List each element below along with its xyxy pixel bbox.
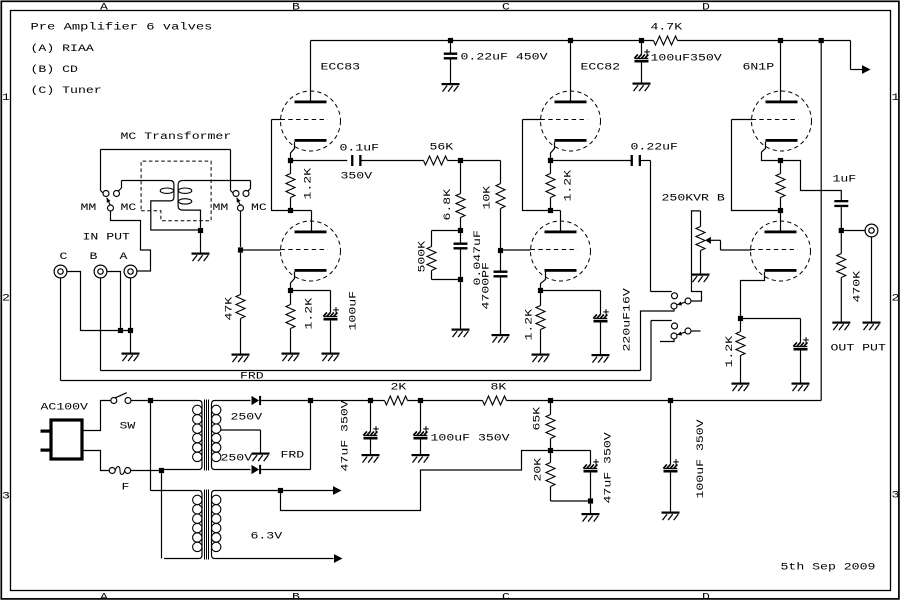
frame row label 2 right (892, 294, 900, 305)
wire B+ down feed (820, 41, 822, 401)
wire cathode to coupling cap (291, 160, 348, 162)
svg-text:D: D (702, 592, 710, 600)
label 250V upper (231, 413, 263, 424)
wire B+ rail top (311, 40, 851, 42)
junction rail 0.22uF (448, 38, 453, 43)
wire to transformer ground (200, 233, 202, 252)
ground 1.2K 6N1P (732, 383, 750, 392)
label MM left (81, 203, 97, 214)
contact selector lower common (671, 333, 677, 339)
svg-text:100uF: 100uF (349, 291, 360, 331)
label 1.2K ECC82 lower (525, 309, 536, 341)
MC transformer secondary winding (178, 181, 250, 228)
svg-text:250V: 250V (221, 454, 253, 465)
label MM right (213, 203, 229, 214)
junction 100uF right node (668, 398, 673, 403)
ground 1.2K stage1 (282, 353, 300, 362)
arrow heater lower (334, 554, 343, 563)
wire 0.22uF to selector (641, 161, 672, 292)
label 4700PF (482, 262, 493, 309)
label 1.2K stage1 lower (305, 298, 316, 330)
svg-text:56K: 56K (430, 143, 454, 154)
label 6.8K (443, 189, 454, 221)
capacitor 0.22uF 450V (444, 43, 458, 83)
capacitor 4700PF (494, 253, 508, 334)
resistor 20K (546, 453, 588, 501)
capacitor 6N1P cathode bypass (793, 337, 809, 382)
label 0.22uF (631, 143, 678, 154)
wire input B shield (107, 272, 121, 328)
frame column label C bottom (502, 592, 510, 600)
connector input B (94, 265, 107, 278)
resistor 1.2K ECC83 lower cathode (286, 293, 295, 352)
label 350V (341, 172, 373, 183)
label 10K (483, 186, 494, 210)
resistor 1.2K 6N1P upper cathode (776, 163, 785, 208)
junction shield B (118, 328, 123, 333)
svg-text:1: 1 (892, 93, 900, 104)
wire ECC83 upper grid to lower plate (272, 120, 312, 231)
svg-text:C: C (502, 592, 510, 600)
triode ECC82 lower (531, 221, 591, 281)
junction ECC82 SRPP midpoint (548, 208, 553, 213)
ground 100uF first (412, 454, 430, 463)
MC transformer primary winding (122, 181, 198, 231)
svg-text:MM: MM (213, 203, 229, 214)
svg-text:F: F (122, 483, 130, 494)
capacitor 100uF bypass (323, 307, 339, 352)
contact MC left (114, 191, 120, 197)
ground 6N1P bypass (792, 383, 810, 392)
svg-text:350V: 350V (341, 172, 373, 183)
label B input (90, 252, 98, 263)
svg-text:B: B (292, 3, 300, 14)
contact MM right (233, 191, 239, 197)
label ECC83 (321, 63, 361, 74)
wire 6N1P cathode to 1uF (783, 161, 841, 201)
svg-text:IN PUT: IN PUT (83, 233, 130, 244)
label 0.1uF (340, 144, 380, 155)
svg-text:2: 2 (2, 294, 10, 305)
power transformer secondary 6.3V (212, 491, 334, 559)
wire common right to grid node (240, 211, 242, 247)
wire 6N1P plate riser (780, 43, 782, 100)
power transformer core upper (205, 400, 209, 471)
junction output node (839, 228, 844, 233)
svg-text:A: A (120, 252, 128, 263)
label 47K (225, 297, 236, 321)
svg-text:4.7K: 4.7K (651, 23, 683, 34)
capacitor 0.047uF (454, 233, 468, 277)
label 500K (418, 241, 429, 273)
svg-text:A: A (100, 592, 108, 600)
contact MM left (103, 191, 109, 197)
label 1.2K 6N1P (725, 336, 736, 368)
wire supply rail (311, 400, 822, 402)
svg-text:1.2K: 1.2K (564, 170, 575, 202)
ground input shield (122, 353, 140, 362)
junction rail ECC82 (568, 38, 573, 43)
label 6.3V (251, 532, 283, 543)
wire cap to 56K (362, 160, 424, 162)
junction SW node (148, 398, 153, 403)
wire selector lower arm stub (691, 330, 700, 332)
wire selector upper common to CD line (641, 309, 675, 370)
svg-text:3: 3 (892, 491, 900, 502)
wire tuner line to selector lower (651, 321, 672, 381)
wire MC right riser (248, 181, 251, 192)
junction ECC82 upper cathode (548, 158, 553, 163)
label C input (60, 252, 68, 263)
connector input A (124, 265, 137, 278)
resistor 4.7K (654, 36, 678, 45)
label SW (120, 422, 136, 433)
resistor 8K (483, 396, 507, 405)
wire to 10K branch (463, 161, 500, 184)
label 220uF16V (623, 288, 634, 351)
wire jack shield to ground (871, 237, 873, 322)
title text (C) Tuner (31, 85, 102, 97)
label 0.22uF 450V (461, 53, 548, 64)
wire wiper to 6N1P grid (721, 240, 752, 250)
label F (122, 483, 130, 494)
resistor 47K grid leak (236, 253, 245, 354)
frame column label B top (292, 3, 300, 14)
svg-text:100uF 350V: 100uF 350V (431, 434, 510, 445)
svg-text:250V: 250V (231, 413, 263, 424)
potentiometer 250KVR B (696, 211, 705, 274)
wire ECC82 upper grid to lower plate (523, 120, 561, 231)
power transformer primary upper (151, 401, 203, 470)
junction 47uF bottom (588, 498, 593, 503)
svg-text:6.3V: 6.3V (251, 532, 283, 543)
ground 0.047uF (452, 329, 470, 338)
frame column label B bottom (292, 592, 300, 600)
resistor 56K (424, 156, 458, 165)
frame column label D bottom (702, 592, 710, 600)
ground heater reference (582, 513, 600, 522)
junction 6.8K bottom (458, 228, 463, 233)
label 0.047uF (473, 230, 484, 285)
label 100uF 350V right (696, 419, 707, 498)
ground 0.22uF 450V (442, 83, 460, 92)
ground 220uF16V (592, 354, 610, 363)
resistor 65K (546, 403, 555, 448)
wire lower diode to B node (261, 403, 310, 469)
triode 6N1P upper (752, 91, 812, 151)
wire ECC82 cathode to 220uF (543, 291, 600, 315)
ground 100uF stage1 (322, 353, 340, 362)
label ECC82 (581, 63, 621, 74)
title text (A) RIAA (31, 43, 94, 55)
contact selector upper common (671, 303, 677, 309)
svg-text:MC Transformer: MC Transformer (121, 131, 232, 143)
ground 470K (832, 322, 850, 331)
svg-text:1.2K: 1.2K (725, 336, 736, 368)
junction input grid node (238, 247, 243, 252)
svg-text:OUT PUT: OUT PUT (831, 344, 886, 355)
svg-text:C: C (60, 252, 68, 263)
switch SW (111, 393, 131, 404)
svg-text:10K: 10K (483, 186, 494, 210)
svg-text:65K: 65K (533, 407, 544, 431)
power transformer primary lower (151, 491, 203, 559)
wire 6N1P upper grid to lower plate (732, 120, 781, 231)
ground potentiometer (692, 274, 710, 283)
svg-text:100uF 350V: 100uF 350V (696, 419, 707, 498)
wire input A down (130, 278, 132, 353)
junction 6N1P SRPP midpoint (778, 208, 783, 213)
ground output jack (863, 322, 881, 331)
wire ECC83 upper grid lead (272, 119, 282, 121)
svg-text:0.22uF 450V: 0.22uF 450V (461, 53, 548, 64)
MC transformer dashed enclosure (141, 161, 211, 221)
label 1.2K ECC82 upper (564, 170, 575, 202)
wire 6N1P lower cathode hook (741, 272, 765, 316)
svg-text:3: 3 (2, 492, 10, 503)
contact selector upper throw (672, 293, 678, 299)
resistor 2K (385, 396, 408, 405)
junction heater node (278, 488, 283, 493)
wire diode to B node (261, 400, 308, 402)
svg-text:500K: 500K (418, 241, 429, 273)
wire 6N1P cathode to bypass cap (743, 319, 800, 343)
label 250V lower (221, 454, 253, 465)
svg-text:4700PF: 4700PF (482, 262, 493, 309)
wire ECC82 upper cathode hook (551, 142, 555, 161)
triode ECC83 upper (281, 91, 341, 151)
label 47uF 350V second (604, 432, 615, 503)
wire input C to tuner line (60, 278, 62, 381)
ground 4700PF (492, 334, 510, 343)
wire fuse to transformer (131, 470, 159, 472)
svg-text:SW: SW (120, 422, 136, 433)
svg-text:2K: 2K (391, 383, 407, 394)
label MC left (121, 203, 137, 214)
contact common right (238, 205, 244, 211)
resistor 470K output (837, 233, 846, 321)
junction divider node (548, 448, 553, 453)
label date 5th Sep 2009 (781, 562, 876, 574)
label AC100V (41, 403, 88, 414)
resistor 1.2K 6N1P lower cathode (736, 321, 745, 382)
resistor 10K (496, 184, 505, 248)
label 56K (430, 143, 454, 154)
wire ECC83 plate riser (310, 41, 312, 101)
frame row label 2 left (2, 294, 10, 305)
diode FRD lower (252, 465, 262, 474)
title text Pre Amplifier 6 valves (31, 22, 213, 34)
svg-text:100uF350V: 100uF350V (651, 54, 722, 65)
resistor 6.8K (456, 163, 465, 230)
AC plug (41, 420, 83, 459)
resistor 1.2K ECC82 lower cathode (536, 293, 545, 353)
capacitor 1uF output (834, 200, 848, 207)
frame column label A bottom (100, 592, 108, 600)
wire heater elevation (281, 451, 548, 511)
svg-text:FRD: FRD (240, 372, 264, 383)
wire MM right drop (231, 150, 234, 194)
wire plug to fuse (83, 451, 110, 471)
wire output node to jack (844, 230, 865, 232)
wire switch to transformer (131, 400, 148, 402)
svg-text:MC: MC (121, 203, 137, 214)
label 8K (491, 383, 507, 394)
label OUT PUT (831, 344, 886, 355)
wire selector upper arm to pot top (691, 211, 701, 301)
frame row label 3 right (892, 491, 900, 502)
svg-text:5th Sep 2009: 5th Sep 2009 (781, 562, 876, 574)
svg-text:470K: 470K (853, 271, 864, 303)
svg-text:47uF 350V: 47uF 350V (604, 432, 615, 503)
wire 6N1P upper cathode hook (762, 142, 778, 161)
switch arm input selector left (107, 198, 111, 205)
junction shield A (128, 328, 133, 333)
label 4.7K (651, 23, 683, 34)
svg-text:(C) Tuner: (C) Tuner (31, 85, 102, 97)
contact MC right (243, 191, 249, 197)
contact selector lower throw (672, 323, 678, 329)
label 1uF (833, 175, 857, 186)
frame column label A top (100, 3, 108, 14)
svg-text:1.2K: 1.2K (525, 309, 536, 341)
junction ECC83 SRPP midpoint (288, 208, 293, 213)
wire to ground heater ref (590, 504, 592, 513)
contact selector lower arm (685, 328, 691, 334)
contact selector upper arm (685, 298, 691, 304)
label MC Transformer (121, 131, 232, 143)
wire 0.047uF to ground (460, 282, 462, 328)
junction 100uF node (418, 398, 423, 403)
label 1.2K stage1 upper (304, 168, 315, 200)
wire ECC83 upper cathode hook (291, 142, 295, 161)
ground center tap (252, 453, 270, 462)
wire 6N1P upper grid lead (732, 119, 753, 121)
potentiometer wiper arrow (705, 237, 720, 244)
label 47uF 350V first (341, 400, 352, 471)
svg-text:2: 2 (892, 294, 900, 305)
wire cathode to 100uF (293, 291, 330, 313)
wire 1uF to output node (840, 207, 842, 230)
svg-text:47K: 47K (225, 297, 236, 321)
svg-text:ECC83: ECC83 (321, 63, 361, 74)
svg-text:250KVR B: 250KVR B (662, 194, 725, 205)
wire input B to line (100, 278, 102, 371)
capacitor 100uF 350V right (663, 403, 679, 511)
title text (B) CD (31, 64, 78, 76)
ground 100uF right (662, 512, 680, 521)
label FRD feed (240, 372, 264, 383)
triode ECC83 lower (281, 221, 341, 281)
resistor 1.2K ECC83 upper cathode (286, 161, 295, 211)
label 100uF350V (651, 54, 722, 65)
junction 6N1P lower cathode (738, 316, 743, 321)
wire ECC82 plate riser (570, 43, 572, 100)
diode FRD upper (252, 396, 262, 405)
switch arm selector upper (677, 301, 685, 305)
wire ECC83 lower cathode hook (291, 272, 295, 291)
connector input C (54, 265, 67, 278)
svg-text:D: D (702, 3, 710, 14)
wire B+ output stub (851, 41, 863, 70)
svg-text:(B) CD: (B) CD (31, 64, 78, 76)
svg-text:B: B (90, 252, 98, 263)
resistor 500K loop (427, 231, 458, 280)
capacitor 220uF16V (593, 309, 609, 354)
wire heater upper (283, 490, 333, 492)
wire selector lower common stub (660, 339, 674, 341)
svg-text:20K: 20K (534, 458, 545, 482)
ground 100uF350V (633, 83, 651, 92)
junction fuse node (159, 468, 164, 473)
wire MM bypass top (101, 149, 231, 151)
contact common left (108, 205, 114, 211)
label 250KVR B (662, 194, 725, 205)
capacitor 100uF 350V first (413, 403, 429, 454)
svg-text:0.22uF: 0.22uF (631, 143, 678, 154)
junction 0.047uF bottom (458, 277, 463, 282)
ground 47uF first (362, 454, 380, 463)
wire CD line B (101, 370, 641, 372)
ground 1.2K ECC82 (532, 354, 550, 363)
svg-text:1.2K: 1.2K (305, 298, 316, 330)
label 20K (534, 458, 545, 482)
wire tuner line C (61, 380, 652, 382)
frame row label 1 right (892, 93, 900, 104)
svg-text:220uF16V: 220uF16V (623, 288, 634, 351)
wire fuse node to heater primary (161, 473, 163, 558)
svg-text:6.8K: 6.8K (443, 189, 454, 221)
junction ECC83 upper cathode (288, 158, 293, 163)
junction rectifier output (308, 398, 313, 403)
svg-text:AC100V: AC100V (41, 403, 88, 414)
junction ECC83 lower cathode (288, 288, 293, 293)
frame row label 1 left (2, 93, 10, 104)
junction 10K bottom (498, 248, 503, 253)
svg-text:(A) RIAA: (A) RIAA (31, 43, 94, 55)
power transformer core lower (205, 490, 209, 560)
triode 6N1P lower (751, 221, 811, 281)
switch arm selector lower (677, 331, 685, 335)
junction rail 100uF350V (639, 38, 644, 43)
label 65K (533, 407, 544, 431)
label 6N1P (743, 63, 775, 74)
wire center tap (221, 430, 261, 453)
capacitor 0.1uF coupling (351, 155, 361, 166)
wire grid node to ECC83 lower grid (243, 249, 280, 251)
label 100uF 350V first (431, 434, 510, 445)
svg-text:6N1P: 6N1P (743, 63, 775, 74)
label 2K (391, 383, 407, 394)
label MC right (251, 203, 267, 214)
connector OUT PUT jack (865, 224, 878, 237)
wire SW node to heater transformer (150, 403, 152, 490)
switch arm input selector right (237, 198, 241, 205)
svg-text:B: B (292, 592, 300, 600)
junction rail B+ feed (819, 38, 824, 43)
power transformer secondary 250V (212, 401, 251, 470)
label IN PUT (83, 233, 130, 244)
svg-text:8K: 8K (491, 383, 507, 394)
junction ECC82 lower cathode (538, 288, 543, 293)
wire ECC82 cathode to 0.22uF (551, 160, 632, 162)
svg-text:1: 1 (2, 93, 10, 104)
fuse F (109, 467, 131, 475)
svg-text:1uF: 1uF (833, 175, 857, 186)
label FRD (281, 451, 305, 462)
ground 47K (232, 354, 250, 363)
junction 56K output (458, 158, 463, 163)
